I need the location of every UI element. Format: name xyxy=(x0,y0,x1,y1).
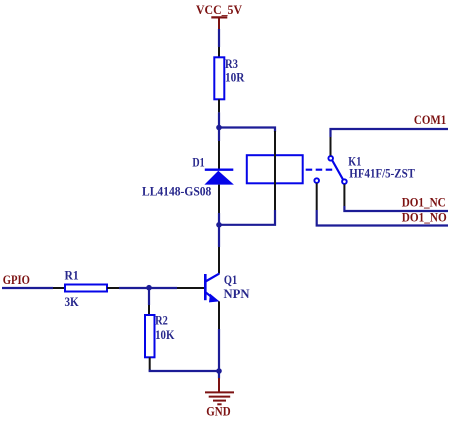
pin K1 NO xyxy=(316,183,318,210)
relay K1 switch NC contact xyxy=(342,179,347,184)
svg-text:NPN: NPN xyxy=(224,286,251,301)
wire Q1 emitter to node D xyxy=(218,329,220,372)
wire R3 to node A xyxy=(218,112,220,128)
wire node A to D1 cathode xyxy=(218,128,220,142)
pin Q1 collector xyxy=(218,247,220,274)
pin R3.1 xyxy=(218,47,220,57)
wire relay coil bottom to node B xyxy=(219,210,275,225)
svg-text:GND: GND xyxy=(206,404,230,419)
wire COM1 xyxy=(331,129,449,137)
svg-text:DO1_NC: DO1_NC xyxy=(402,195,446,210)
pin K1 coil through line xyxy=(274,131,276,210)
wire DO1_NC xyxy=(344,206,448,211)
svg-text:DO1_NO: DO1_NO xyxy=(402,209,447,224)
pin D1 cathode xyxy=(218,141,220,169)
junction node B xyxy=(216,222,222,228)
pin R2.2 xyxy=(149,357,151,370)
wire GPIO to R1 xyxy=(2,287,53,289)
junction node A xyxy=(216,125,222,131)
svg-text:10K: 10K xyxy=(155,327,175,342)
svg-text:R2: R2 xyxy=(155,312,168,327)
svg-text:10R: 10R xyxy=(225,70,245,85)
wire node B to Q1 collector xyxy=(218,225,220,247)
svg-text:R1: R1 xyxy=(65,267,79,282)
pin D1 anode xyxy=(218,185,220,213)
resistor R1 xyxy=(65,285,107,292)
wire DO1_NO xyxy=(317,210,448,226)
pin Q1 emitter xyxy=(218,301,220,329)
pin R2.1 xyxy=(148,305,150,315)
relay K1 dashed actuator link xyxy=(306,169,333,171)
pin K1 common xyxy=(330,137,332,156)
wire node D to GND xyxy=(218,371,220,379)
transistor Q1 xyxy=(205,274,219,303)
pin R1.1 xyxy=(53,287,65,289)
wire node C to R2 xyxy=(148,288,150,305)
svg-text:GPIO: GPIO xyxy=(3,272,30,287)
svg-text:COM1: COM1 xyxy=(414,112,446,127)
pin R3.2 xyxy=(218,99,220,112)
relay K1 switch armature xyxy=(332,161,343,180)
wire D1 anode to node B xyxy=(218,213,220,225)
wire R1 to node C xyxy=(119,287,177,289)
svg-text:D1: D1 xyxy=(192,155,204,170)
relay K1 switch common contact xyxy=(328,156,333,161)
svg-text:LL4148-GS08: LL4148-GS08 xyxy=(142,184,212,199)
relay K1 switch NO contact xyxy=(314,178,319,183)
junction node D xyxy=(216,368,222,374)
svg-text:VCC_5V: VCC_5V xyxy=(196,2,243,17)
resistor R3 xyxy=(214,57,224,99)
svg-text:HF41F/5-ZST: HF41F/5-ZST xyxy=(349,165,415,180)
wire VCC to R3 xyxy=(218,29,220,47)
svg-text:Q1: Q1 xyxy=(224,272,237,287)
pin Q1 base xyxy=(177,287,204,289)
wire node A to relay coil top xyxy=(219,128,275,133)
wire R2 bottom to node D xyxy=(150,370,219,372)
diode D1 xyxy=(204,170,234,185)
relay K1 coil xyxy=(247,155,303,183)
junction node C xyxy=(146,285,152,291)
pin R1.2 xyxy=(107,287,119,289)
resistor R2 xyxy=(145,315,155,357)
pin K1 NC xyxy=(343,184,345,206)
power symbol VCC_5V bar xyxy=(211,17,227,29)
svg-text:3K: 3K xyxy=(65,294,80,309)
ground symbol xyxy=(205,378,234,404)
